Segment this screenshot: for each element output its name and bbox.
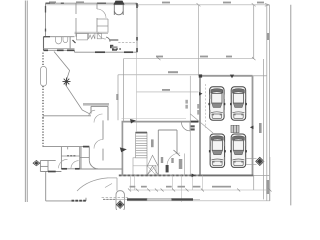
room label dark [166,165,169,172]
driveway line [108,177,117,179]
dim text yard [162,89,170,91]
under stair triangle [147,155,159,175]
planter hatch [231,125,239,132]
garage wall west [199,76,201,176]
door marker dark 2 [120,147,127,152]
eave line [122,117,187,119]
scale bar outline [147,198,172,200]
dimension line mid [124,58,254,60]
porch door arc [94,114,103,123]
bottom dim ticks [128,189,272,192]
east room door leaf [174,150,181,156]
kitchen fixture [97,33,101,38]
bath divider wall [69,37,71,49]
closet wall horizontal [80,157,90,159]
garage wall east [252,76,254,176]
fence line [42,53,44,67]
chimney walls [114,3,123,15]
label gray vertical 2 [185,100,188,104]
top dimension arrow [265,3,270,6]
property line left (double) [25,1,27,203]
stairs [136,132,147,158]
toilet 1 [56,37,62,44]
scale bar block 2 [172,198,194,200]
gate capsule [116,191,124,212]
extension line garage [198,5,200,76]
bottom dimension line [130,189,271,191]
room south wall [80,168,123,170]
survey marker south [116,200,124,209]
wall top dark segment [190,121,198,123]
left rooms walls [40,161,61,172]
stairs top dark [136,131,147,133]
car 4 [230,134,247,167]
driveway arc [77,178,108,191]
kitchen sink zigzag [89,33,95,39]
driveway drop [116,178,118,191]
wall bottom right dark segments [95,51,133,53]
wall marker triangle west [199,92,203,96]
porch walls [91,106,108,120]
garden wall [43,115,91,117]
interior wall vertical B [96,3,98,32]
wall marker south dark [192,174,196,178]
hall door arc [94,140,103,149]
hall wall [102,120,104,160]
wall south dash overlay [119,174,200,176]
door arc bath hall [106,37,110,42]
stair landing [133,158,147,176]
east room door arc [167,153,180,166]
door marker dark [130,119,136,124]
wc stub [67,147,69,150]
dim stubs below wall [131,157,271,202]
dim ticks mid [157,57,256,60]
garage wall north [199,75,252,77]
door arc kitchen [98,33,106,39]
small text smudges [161,157,174,163]
wall right dark segments [136,3,138,52]
wall left lower jog [44,37,46,51]
car 1 [208,87,225,120]
dashed overhead line [118,42,136,44]
car 2 [230,87,247,120]
terrace wall west [45,172,47,201]
stall line dashed [205,84,207,128]
kitchen counter [77,33,88,40]
label smudge stairs [151,139,154,147]
closet walls [97,19,108,33]
laundry wall [110,39,118,41]
wc wall south dark segments [61,168,79,170]
label smudge mid [83,103,109,106]
porch door arc left [89,110,95,115]
wc door arc 2 [71,161,79,169]
dimension text smudges top [49,1,264,3]
living room curve [89,160,98,169]
label dark 2 [191,125,195,127]
dark seg small [112,49,117,51]
wall bottom right [75,51,138,53]
entry door arc [182,122,191,131]
living room wall [88,147,90,161]
dimension line yard [137,91,199,93]
east room walls [158,130,177,175]
wall top thick [122,121,199,123]
fence break capsule [41,67,47,87]
wc dark dashes [67,155,77,157]
crossing line [102,196,129,198]
dark dashes hall [112,48,121,50]
room label gray vertical [179,159,183,169]
wall west thick [121,122,123,176]
wall marker triangle east [250,126,254,130]
scale bar dashes left [103,198,115,200]
terrace wall south [46,200,86,202]
garage wall south [119,174,254,176]
right vertical text smudges [259,33,269,194]
door arc hall [97,9,106,18]
wc door arc 1 [59,159,68,168]
extension line [136,52,138,131]
survey marker west [33,160,41,166]
top dimension line [46,3,269,6]
left rooms dark segment [48,171,56,173]
leader diagonal small [105,184,112,188]
walkway north line [118,74,200,76]
mid wall [43,146,89,148]
wc wall south [61,168,79,170]
leader lines to marker [246,159,257,165]
interior wall vertical A [75,3,77,37]
wall marker triangle north [230,75,234,79]
east wall 3 [189,76,191,176]
bottom dim text smudges [130,186,231,188]
label gray vertical 3 [197,104,200,109]
bathroom wall [44,36,75,38]
path diagonal [54,52,91,115]
walk text smudge [116,94,118,100]
under stair hatch [147,165,156,175]
scale baseline [127,200,270,202]
mid wall dark segment [83,146,89,148]
wall bottom left [44,48,75,50]
wall top dark segments [46,2,107,4]
wall top [46,2,138,4]
walkway west line 2 [117,75,119,121]
wall bottom step [74,50,76,52]
wc inner wall [61,155,79,157]
chimney dark cap [114,1,125,5]
corner marker dark [199,74,202,77]
wall bottom left dark segments [44,49,75,51]
toilet 2 [63,37,68,43]
wall left [45,3,47,37]
walkway west line [123,59,125,122]
east wall 2 [183,154,185,176]
tree symbol [63,78,71,86]
wc wall east [79,147,81,169]
survey marker east [255,157,264,166]
door tick [73,40,76,43]
fence line lower [42,86,44,118]
terrace dark dashes [72,200,86,202]
wall right [136,3,138,52]
dark fixture rect [110,45,113,48]
scale bar line [103,198,200,200]
scale bar block 1 [127,198,147,200]
leader diagonal [190,114,213,133]
fence dotted lower [42,118,44,147]
interior wall horizontal mid [75,31,109,33]
walkway text [168,71,178,73]
dim stub extra [191,175,193,190]
wall left dark segments [45,6,47,32]
dim text mid [156,56,232,58]
wc wall west [60,147,62,169]
car 3 [209,134,226,167]
closet wall vertical [80,147,82,169]
